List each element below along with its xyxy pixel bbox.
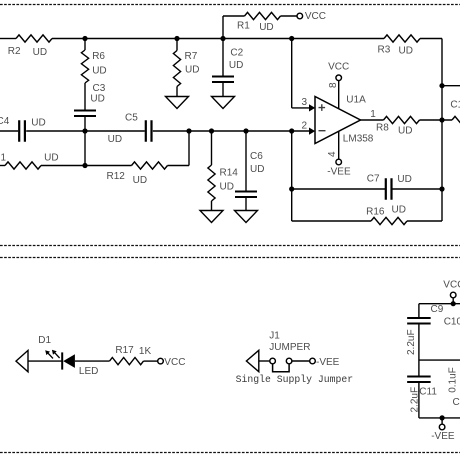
svg-text:4: 4 xyxy=(327,151,338,157)
svg-text:C12: C12 xyxy=(453,397,460,408)
svg-text:R14: R14 xyxy=(220,168,239,179)
svg-text:JUMPER: JUMPER xyxy=(269,342,310,353)
svg-text:VCC: VCC xyxy=(305,11,326,22)
svg-text:UD: UD xyxy=(399,46,413,57)
svg-text:R8: R8 xyxy=(376,123,389,134)
svg-text:R2: R2 xyxy=(8,46,21,57)
svg-text:R17: R17 xyxy=(115,345,134,356)
svg-text:UD: UD xyxy=(185,65,199,76)
svg-text:2.2uF: 2.2uF xyxy=(410,387,421,413)
svg-text:1: 1 xyxy=(1,153,7,164)
svg-text:C5: C5 xyxy=(125,112,138,123)
svg-text:UD: UD xyxy=(90,94,104,105)
svg-text:2: 2 xyxy=(302,121,308,132)
svg-text:VCC: VCC xyxy=(164,357,185,368)
svg-text:1K: 1K xyxy=(139,346,152,357)
svg-text:1: 1 xyxy=(370,109,376,120)
svg-text:R16: R16 xyxy=(366,207,385,218)
svg-text:C10: C10 xyxy=(444,316,460,327)
svg-text:U1A: U1A xyxy=(346,95,366,106)
svg-text:3: 3 xyxy=(302,97,308,108)
svg-text:UD: UD xyxy=(92,66,106,77)
svg-text:UD: UD xyxy=(250,164,264,175)
svg-text:UD: UD xyxy=(392,205,406,216)
svg-text:C3: C3 xyxy=(93,83,106,94)
svg-text:C7: C7 xyxy=(367,173,380,184)
svg-text:UD: UD xyxy=(229,60,243,71)
svg-text:-VEE: -VEE xyxy=(316,357,340,368)
svg-text:LM358: LM358 xyxy=(343,134,374,145)
svg-text:-VEE: -VEE xyxy=(431,431,455,442)
svg-text:C6: C6 xyxy=(250,151,263,162)
svg-text:C11: C11 xyxy=(419,387,437,398)
svg-text:UD: UD xyxy=(259,22,273,33)
svg-text:C9: C9 xyxy=(431,304,444,315)
svg-text:UD: UD xyxy=(44,153,58,164)
svg-text:LED: LED xyxy=(79,366,98,377)
svg-text:R1: R1 xyxy=(237,21,250,32)
svg-text:R12: R12 xyxy=(107,171,126,182)
svg-text:8: 8 xyxy=(328,82,339,88)
svg-text:UD: UD xyxy=(33,47,47,58)
svg-text:J1: J1 xyxy=(269,331,280,342)
svg-text:C1: C1 xyxy=(450,100,460,111)
svg-text:UD: UD xyxy=(397,174,411,185)
svg-text:UD: UD xyxy=(108,134,122,145)
svg-text:-VEE: -VEE xyxy=(327,167,351,178)
svg-text:UD: UD xyxy=(220,182,234,193)
svg-text:Single Supply Jumper: Single Supply Jumper xyxy=(236,374,354,385)
svg-text:D1: D1 xyxy=(38,335,51,346)
svg-text:R3: R3 xyxy=(378,45,391,56)
svg-text:VCC: VCC xyxy=(328,62,349,73)
svg-text:2.2uF: 2.2uF xyxy=(406,329,417,355)
svg-text:UD: UD xyxy=(31,118,45,129)
svg-text:0.1uF: 0.1uF xyxy=(448,367,459,393)
svg-text:VCC: VCC xyxy=(443,279,460,290)
svg-text:UD: UD xyxy=(398,126,412,137)
svg-text:C2: C2 xyxy=(230,47,243,58)
svg-text:UD: UD xyxy=(133,175,147,186)
svg-text:R6: R6 xyxy=(92,51,105,62)
svg-text:C4: C4 xyxy=(0,116,10,127)
svg-text:R7: R7 xyxy=(185,51,198,62)
